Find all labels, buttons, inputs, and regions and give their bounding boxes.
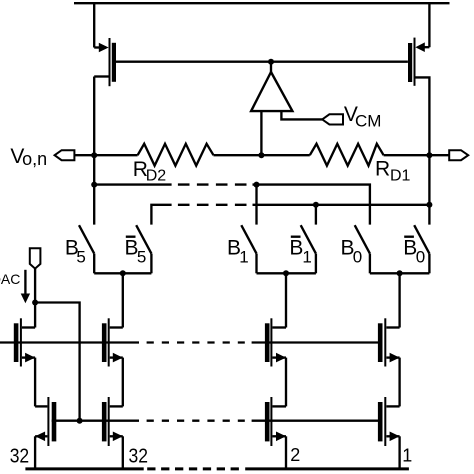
svg-text:0: 0 [353,248,362,267]
svg-text:D1: D1 [390,168,411,185]
node: B1 pair join [283,270,289,276]
transistor M3 gate bar [14,323,19,362]
wire: true bus solid right segment with corner down to switch B0 [253,185,370,225]
switch B-bar0 blade [414,225,429,253]
node: B0 pair join [397,270,403,276]
ground rail dashed middle segment [147,467,239,470]
node: left output to true-bus junction [91,182,97,188]
terminal IDAC (input flag pointing down) [30,248,41,268]
wire: op-amp left input down to output line [260,111,262,155]
wire: right output vertical down to switch B-bar0 [428,155,430,224]
resistor RD2 [138,144,214,166]
ground rail solid left segment [25,467,143,470]
wire: bias node over to bottom-mirror gate bus [35,303,80,421]
transistor M7 gate bar [52,402,57,441]
transistor M5 channel bar [270,318,272,366]
svg-text:0: 0 [416,248,425,267]
transistor M2 channel bar [414,38,416,86]
label RD2 [133,158,166,184]
label RD1 [375,158,411,185]
node: right output / M2 drain junction [426,152,432,158]
transistor M1 drain wire [94,75,108,77]
transistor M10 channel bar [384,397,386,446]
wire: true bus solid left segment [94,183,171,185]
wire: RD2 to RD1 (through op-amp input node) [214,154,310,156]
svg-text:1: 1 [402,445,412,465]
node: bar bus to right output vertical [426,202,432,208]
svg-text:32: 32 [129,445,149,467]
label B0 [341,237,363,267]
wire: B1 pair source join [257,272,316,274]
node: left output / M1 drain junction [91,152,97,158]
wire: B1 stub from true bus [255,185,257,225]
transistor M2 source arrow (points into channel) [415,42,424,52]
wire: bottom mirror gate bus solid left segment [52,420,139,422]
wire: RD1 to right output terminal [384,154,450,156]
switch B-bar1 bottom stub [315,254,317,274]
label B-bar5 [125,237,147,267]
switch B1 bottom stub [255,254,257,274]
terminal Vo,n (output flag) [55,150,75,160]
transistor M9 (bit1 mirror): drain wire [272,405,286,407]
transistor M1 gate bar [112,43,116,82]
wire: M8 source down to ground rail [122,436,124,467]
transistor M5 source wire with arrow [272,353,286,363]
transistor M7 (bias mirror, mirrored): drain wire [35,405,47,407]
label B-bar0 [403,237,425,267]
svg-text:o,n: o,n [22,149,47,169]
wire: bottom mirror gate bus solid right segment [252,420,383,422]
wire: rail to M1 source [93,3,95,47]
switch B-bar5 bottom stub [150,254,152,274]
wire: B0 pair down to cascode drain [398,273,400,327]
svg-text:1: 1 [239,248,248,267]
terminal VCM (input flag) [322,114,343,124]
switch B-bar1 blade [301,225,316,253]
node: gate line / op-amp output junction [268,59,274,65]
ground rail solid right segment [245,467,409,470]
switch B-bar5 blade [136,225,151,253]
switch B5 blade [79,225,94,253]
svg-text:32: 32 [10,445,30,467]
svg-text:DAC: DAC [0,271,20,287]
svg-text:B: B [289,237,303,260]
wire: bottom mirror gate bus dashed middle segment [147,420,245,422]
wire: rail to M2 source [428,3,430,47]
transistor M9 gate bar [265,402,270,441]
wire: bar bus solid right segment [253,204,430,206]
transistor M4 source wire with arrow [110,353,123,363]
transistor M6 source wire with arrow [386,353,399,363]
wire: M5 source down to M9 drain [285,358,287,407]
node: op-amp input on output line [258,152,264,158]
wire: IDAC terminal down to bias node [34,269,36,328]
switch B0 blade [355,225,370,253]
wire: Vo,n terminal to RD2 [74,154,137,156]
transistor M1 source arrow (points into channel) [99,43,109,53]
transistor M1 channel bar [109,38,111,86]
wire: M10 source down to ground rail [398,436,400,467]
wire: M9 source down to ground rail [285,436,287,467]
label 1 (bit0 ratio) [402,445,412,465]
transistor M4 (B5 cascode): drain wire [110,326,123,328]
label B-bar1 [289,237,311,267]
node: switch B1 on true bus [254,182,260,188]
transistor M2 (PMOS right): source wire [418,46,430,48]
transistor M4 gate bar [102,323,107,362]
wire: bar bus dashed middle segment [178,204,247,206]
wire: B5 pair down to cascode drain [122,273,124,327]
transistor M8 gate bar [102,402,107,441]
transistor M4 channel bar [108,318,110,366]
transistor M2 gate bar [408,43,412,82]
wire: op-amp output to gate line [270,62,272,73]
transistor M7 channel bar [47,397,49,446]
transistor M8 (B5 mirror): drain wire [110,405,123,407]
transistor M8 channel bar [108,397,110,446]
transistor M6 channel bar [384,318,386,366]
svg-text:2: 2 [290,445,300,465]
wire: cascode gate bus solid left segment [0,341,139,343]
transistor M10 gate bar [378,402,383,441]
label B1 [227,237,249,267]
wire: M3 source down to M7 drain [34,358,36,407]
transistor M9 channel bar [270,397,272,446]
wire: B0 pair source join [370,272,430,274]
wire: M1 drain down through output node to switch B5 [93,77,95,225]
svg-text:1: 1 [302,248,311,267]
svg-text:5: 5 [137,248,146,267]
label 32 (bit5 ratio) [129,445,149,467]
label Vo,n [10,145,47,169]
switch B-bar0 bottom stub [428,254,430,274]
positive supply rail [74,2,450,4]
switch B1 blade [241,225,256,253]
svg-text:R: R [375,158,390,181]
wire: B-bar1 stub from bar bus [315,205,317,225]
node: B5 pair join [120,270,126,276]
resistor RD1 [310,144,384,166]
transistor M3 channel bar [20,318,22,366]
wire: M4 source down to M8 drain [122,358,124,407]
wire: common gate line between M1 and M2 [116,61,408,63]
transistor M1 (PMOS left): source wire [94,46,106,48]
wire: B-bar5 stub and bar-bus corner [151,205,171,225]
transistor M9 source wire with arrow [272,432,286,442]
label IDAC (clipped at image edge) [0,271,20,287]
transistor M3 source wire with arrow [22,353,35,363]
switch B5 bottom stub [93,254,95,274]
transistor M3 (bias cascode): drain wire [22,326,35,328]
op-amp U1 (common-mode buffer triangle) [251,72,292,111]
transistor M5 gate bar [265,323,270,362]
wire: B5 pair source join [94,272,151,274]
wire: true bus dashed middle segment [178,183,247,185]
transistor M6 (bit0 cascode): drain wire [386,326,399,328]
label VCM [344,103,382,130]
wire: B1 pair down to cascode drain [285,273,287,327]
svg-text:D2: D2 [146,167,167,184]
transistor M8 source wire with arrow [110,432,123,442]
transistor M6 gate bar [378,323,383,362]
label 2 (bit1 ratio) [290,445,300,465]
label 32 (bias ratio) [10,445,30,467]
node: diode connection on bottom gate bus [77,418,83,424]
node: switch B-bar1 on bar bus [313,202,319,208]
wire: cascode gate bus dashed middle segment [147,341,245,343]
wire: M6 source down to M10 drain [398,358,400,407]
transistor M2 drain wire [415,77,429,155]
label B5 [65,237,86,267]
wire: op-amp right input to VCM terminal [281,111,322,119]
svg-text:CM: CM [355,111,381,130]
node: bias diode node [32,300,38,306]
transistor M10 (bit0 mirror): drain wire [386,405,399,407]
wire: M7 source down to ground rail [34,436,36,467]
current arrow IDAC [21,270,30,304]
transistor M5 (bit1 cascode): drain wire [272,326,286,328]
terminal Vo,p (right output flag) [449,150,468,160]
transistor M10 source wire with arrow [386,432,399,442]
transistor M7 source wire with arrow [35,432,47,442]
wire: cascode gate bus solid right segment [252,341,383,343]
switch B0 bottom stub [369,254,371,274]
svg-text:5: 5 [76,248,85,267]
